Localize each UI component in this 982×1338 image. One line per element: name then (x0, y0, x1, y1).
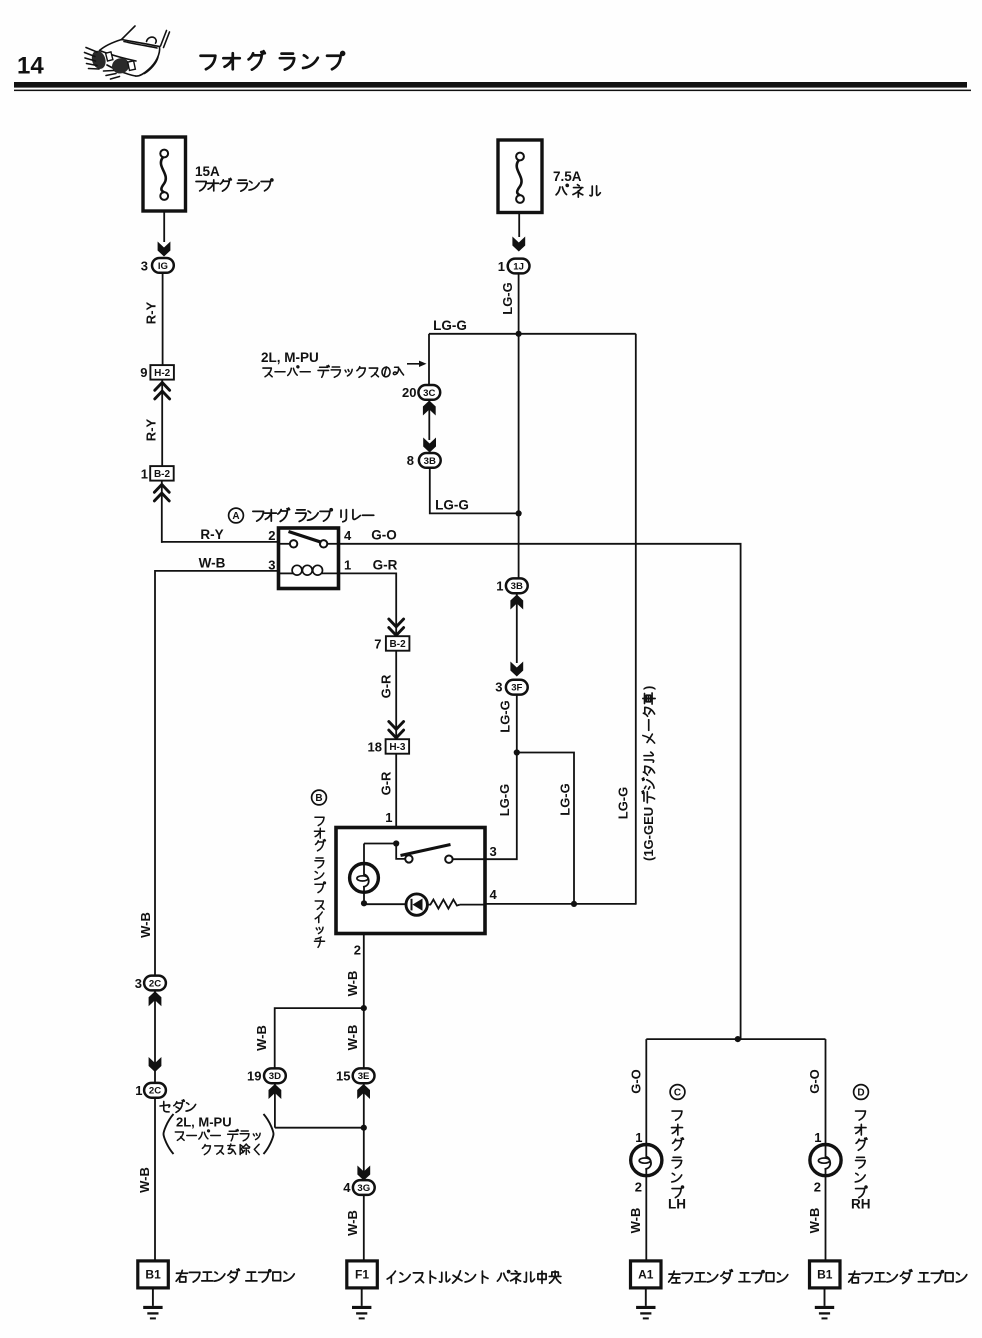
wire 3B to junction, LG-G (430, 468, 519, 514)
double chevron down on G-R (389, 619, 404, 627)
wire to relay pin 2, R-Y (161, 541, 279, 543)
relay coil (279, 572, 294, 574)
svg-text:2L, M-PU: 2L, M-PU (176, 1115, 232, 1130)
car icon with fog lamp beams (100, 26, 170, 76)
switch pin1 junction dot (393, 840, 399, 846)
svg-text:LH: LH (668, 1197, 686, 1212)
svg-text:1: 1 (141, 467, 148, 482)
svg-text:15A: 15A (195, 164, 220, 179)
svg-text:): ) (641, 686, 656, 690)
svg-text:3G: 3G (357, 1183, 370, 1194)
arrow down into 3F (510, 662, 523, 677)
arrow up into 2C (149, 991, 162, 1006)
switch internal wire to contact (396, 844, 405, 859)
illumination lamp in switch (364, 843, 396, 845)
svg-text:2C: 2C (149, 978, 161, 989)
pin4 wire to LG-G 1G-GEU line (485, 903, 636, 905)
relay contact wire (279, 543, 291, 545)
svg-text:W-B: W-B (807, 1208, 822, 1234)
ground B1 right fender apron (138, 1261, 169, 1288)
svg-text:W-B: W-B (199, 556, 226, 571)
svg-text:2C: 2C (149, 1086, 161, 1097)
arrow into IG (158, 242, 171, 257)
sedan note (160, 1101, 170, 1111)
svg-text:B: B (315, 793, 322, 804)
relay A fog lamp relay box (279, 528, 339, 589)
svg-text:3D: 3D (269, 1071, 281, 1082)
wire W-B relay pin3 to left column (155, 571, 279, 1261)
svg-text:1: 1 (385, 810, 392, 825)
svg-text:LG-G: LG-G (435, 498, 469, 513)
junction below 3E (361, 1125, 367, 1131)
svg-text:14: 14 (17, 53, 44, 80)
arrow up into 3B main (516, 593, 518, 663)
wire IG to H-2, R-Y (162, 273, 164, 365)
svg-text:7: 7 (374, 637, 381, 652)
W-B label above F1 (345, 1210, 360, 1236)
double chevron below H-2 (161, 380, 163, 467)
arrow up into 3E (357, 1084, 370, 1099)
ground A1 left fender apron (631, 1261, 662, 1288)
svg-text:3: 3 (495, 680, 502, 695)
main W-B label (345, 1025, 360, 1051)
wire R-Y label (144, 418, 159, 441)
svg-text:3: 3 (141, 259, 148, 274)
W-B label above B1 (137, 1167, 152, 1193)
wire contact2 to pin3 (453, 858, 485, 860)
svg-text:G-R: G-R (373, 558, 398, 573)
wire 1J down, LG-G (518, 273, 520, 579)
wire resistor to pin4 (460, 904, 485, 906)
wire lamp to bottom junction (363, 892, 365, 903)
left branch down to 3C (428, 334, 430, 386)
wire 3F down, LG-G (485, 695, 517, 860)
svg-text:H-3: H-3 (389, 742, 406, 753)
svg-text:7.5A: 7.5A (553, 169, 582, 184)
svg-text:W-B: W-B (254, 1025, 269, 1051)
svg-text:G-R: G-R (379, 674, 394, 698)
fuse 7.5A panel (498, 140, 542, 213)
right leg wire to lamp D (825, 1039, 827, 1144)
svg-text:1: 1 (135, 1083, 142, 1098)
svg-text:G-R: G-R (379, 771, 394, 795)
arrow into 1J (512, 237, 525, 252)
ground B1 right fender apron 2 (810, 1261, 841, 1288)
svg-text:W-B: W-B (137, 1167, 152, 1193)
svg-text:9: 9 (140, 365, 147, 380)
svg-text:R-Y: R-Y (200, 527, 223, 542)
annotation arrow (407, 363, 424, 365)
svg-text:3B: 3B (511, 581, 523, 592)
svg-text:B-2: B-2 (390, 639, 407, 650)
wire G-R relay pin1 down to switch (339, 573, 397, 843)
branch from 3F junction to switch pin4 (517, 753, 574, 904)
relay switch blade (289, 532, 322, 543)
svg-text:LG-G: LG-G (616, 787, 631, 820)
svg-text:R-Y: R-Y (144, 301, 159, 324)
arrow down into 3B (423, 438, 436, 453)
svg-text:LG-G: LG-G (497, 784, 512, 817)
horizontal LG-G branch line (429, 333, 636, 335)
wire G-O relay pin4 to right (339, 544, 741, 1039)
svg-text:1: 1 (635, 1130, 642, 1145)
fog lamp C LH (631, 1145, 662, 1176)
svg-text:RH: RH (851, 1197, 871, 1212)
svg-text:H-2: H-2 (154, 368, 171, 379)
svg-text:R-Y: R-Y (144, 418, 159, 441)
junction mid LG-G (516, 510, 522, 516)
wire junction to diode (364, 903, 406, 905)
svg-text:LG-G: LG-G (558, 783, 573, 816)
wire 3D branch to junction (275, 1127, 364, 1129)
junction top LG-G (516, 331, 522, 337)
junction at 3F branch (514, 749, 520, 755)
svg-text:2: 2 (354, 943, 361, 958)
svg-text:1: 1 (498, 259, 505, 274)
svg-text:B1: B1 (145, 1268, 161, 1282)
svg-text:LG-G: LG-G (433, 318, 467, 333)
svg-text:4: 4 (343, 1180, 351, 1195)
arrow down into 3G (357, 1166, 370, 1181)
svg-text:3F: 3F (511, 683, 522, 694)
svg-text:20: 20 (402, 385, 416, 400)
svg-text:LG-G: LG-G (500, 282, 515, 315)
svg-text:18: 18 (368, 740, 382, 755)
junction below switch (361, 1005, 367, 1011)
svg-text:1: 1 (496, 579, 503, 594)
horizontal G-O split wire (646, 1038, 825, 1040)
svg-text:4: 4 (344, 528, 352, 543)
svg-text:W-B: W-B (628, 1208, 643, 1234)
fog lamp D RH (810, 1145, 841, 1176)
W-B label left column (138, 912, 153, 938)
switch B box (336, 828, 485, 934)
svg-text:B1: B1 (817, 1268, 833, 1282)
svg-text:2: 2 (268, 528, 275, 543)
svg-text:W-B: W-B (345, 1025, 360, 1051)
label C fog lamp LH (670, 1085, 685, 1100)
svg-text:W-B: W-B (345, 971, 360, 997)
svg-text:19: 19 (247, 1069, 261, 1084)
svg-text:15: 15 (336, 1069, 350, 1084)
header rule (14, 82, 967, 88)
svg-text:F1: F1 (355, 1268, 369, 1282)
svg-text:2: 2 (814, 1180, 821, 1195)
svg-text:LG-G: LG-G (498, 700, 513, 733)
left leg wire to lamp C (645, 1039, 647, 1144)
switch label B (312, 790, 327, 805)
svg-text:C: C (674, 1088, 681, 1099)
svg-text:3: 3 (490, 844, 497, 859)
svg-text:D: D (857, 1088, 864, 1099)
double chevron below B-2 (161, 481, 163, 543)
svg-text:8: 8 (407, 453, 414, 468)
junction G-O split (735, 1036, 741, 1042)
resistor zigzag (427, 900, 460, 909)
switch label text vertical (315, 817, 324, 825)
svg-text:A: A (232, 511, 239, 522)
junction on pin4 wire (571, 901, 577, 907)
svg-text:B-2: B-2 (154, 469, 171, 480)
svg-text:IG: IG (158, 261, 168, 272)
svg-text:G-O: G-O (371, 528, 397, 543)
right branch LG-G 1G-GEU digital meter (635, 334, 637, 905)
svg-text:G-O: G-O (807, 1069, 822, 1094)
diode (LED) (406, 894, 427, 915)
svg-text:3C: 3C (423, 388, 435, 399)
ground F1 instrument panel center (347, 1261, 378, 1288)
pin2 wire down (363, 934, 365, 1262)
arrow up into 3D (274, 1083, 276, 1128)
arrow down into 1 2C (149, 1057, 162, 1072)
svg-text:1J: 1J (513, 261, 524, 272)
op: relay label A (229, 508, 244, 523)
svg-text:A1: A1 (638, 1268, 654, 1282)
relay contact circles (290, 540, 297, 547)
wire fuse1 to IG (163, 211, 165, 242)
W-B label below switch (345, 971, 360, 997)
switch contact circles (405, 855, 412, 862)
svg-text:1: 1 (814, 1130, 821, 1145)
G-R label (379, 674, 394, 698)
svg-text:4: 4 (490, 887, 498, 902)
double chevron down on G-R 2 (389, 722, 404, 730)
svg-text:1: 1 (344, 558, 351, 573)
arrow up into 3C (428, 400, 430, 440)
svg-text:W-B: W-B (345, 1210, 360, 1236)
svg-text:3E: 3E (358, 1071, 370, 1082)
svg-text:2: 2 (635, 1180, 642, 1195)
title fog lamp (201, 56, 216, 70)
switch blade (401, 845, 451, 856)
svg-text:2L, M-PU: 2L, M-PU (261, 350, 319, 365)
svg-text:3: 3 (135, 976, 142, 991)
fuse 15A fog lamp (143, 137, 186, 211)
branch wire to 3D (275, 1008, 364, 1068)
svg-text:G-O: G-O (629, 1069, 644, 1094)
G-R label 2 (379, 771, 394, 795)
svg-text:W-B: W-B (138, 912, 153, 938)
svg-text:(1G-GEU: (1G-GEU (641, 807, 656, 861)
wire fuse2 to 1J (518, 213, 520, 238)
label D fog lamp RH (854, 1085, 869, 1100)
svg-text:3B: 3B (424, 456, 436, 467)
